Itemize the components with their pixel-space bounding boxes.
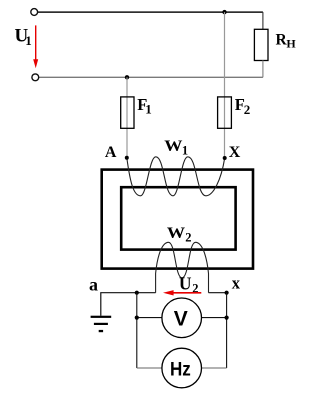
svg-text:H: H bbox=[286, 37, 296, 51]
fuse F2 bbox=[218, 97, 232, 128]
wire F1 lead bbox=[126, 77, 128, 157]
node A dot bbox=[125, 156, 129, 160]
wire right vertical bbox=[226, 293, 228, 368]
wire a-x left segment bbox=[101, 293, 156, 316]
node junction top bbox=[222, 10, 226, 14]
svg-text:1: 1 bbox=[25, 33, 32, 48]
winding W1 bbox=[127, 157, 225, 196]
svg-text:V: V bbox=[174, 308, 188, 331]
terminal T1 bbox=[31, 9, 38, 16]
svg-text:1: 1 bbox=[145, 102, 152, 117]
node dot left bbox=[135, 291, 139, 295]
svg-text:X: X bbox=[229, 144, 241, 161]
wire Hz right stub bbox=[202, 367, 227, 369]
terminal T2 bbox=[32, 74, 39, 81]
arrow U2 (red) bbox=[170, 292, 201, 294]
svg-text:1: 1 bbox=[182, 143, 188, 157]
wire lower horizontal bbox=[39, 76, 263, 78]
node dot V right bbox=[225, 316, 229, 320]
winding W2 bbox=[156, 242, 209, 277]
svg-text:a: a bbox=[89, 274, 98, 294]
wire RH top lead bbox=[262, 12, 264, 29]
frequency meter Hz bbox=[162, 348, 202, 388]
fuse F1 bbox=[121, 97, 134, 128]
svg-text:W: W bbox=[167, 225, 186, 242]
transformer core outer bbox=[102, 170, 253, 269]
wire W2 left lead bbox=[155, 274, 157, 293]
wire left vertical bbox=[136, 293, 138, 368]
arrow U1 (red) bbox=[35, 25, 37, 60]
node dot x terminal bbox=[225, 291, 229, 295]
svg-text:x: x bbox=[232, 273, 241, 292]
transformer core inner window bbox=[121, 187, 235, 249]
resistor RH bbox=[254, 29, 268, 60]
wire W2 right lead bbox=[208, 274, 210, 293]
wire a-x right segment bbox=[209, 292, 227, 294]
wire F2 lead bbox=[224, 12, 226, 158]
svg-text:Hz: Hz bbox=[170, 358, 191, 380]
node junction lower bbox=[125, 75, 129, 79]
node X dot bbox=[223, 156, 227, 160]
svg-text:U: U bbox=[179, 273, 192, 293]
wire RH bottom lead bbox=[262, 61, 264, 78]
wire top horizontal bbox=[38, 11, 263, 13]
wire Hz left stub bbox=[137, 367, 162, 369]
svg-text:2: 2 bbox=[244, 102, 251, 117]
svg-text:A: A bbox=[105, 144, 117, 161]
ground bbox=[91, 316, 112, 318]
svg-text:2: 2 bbox=[185, 230, 191, 244]
wire V left stub bbox=[137, 317, 162, 319]
voltmeter V bbox=[162, 298, 202, 338]
wire V right stub bbox=[202, 317, 227, 319]
node dot V left bbox=[135, 316, 139, 320]
svg-text:W: W bbox=[164, 138, 183, 155]
